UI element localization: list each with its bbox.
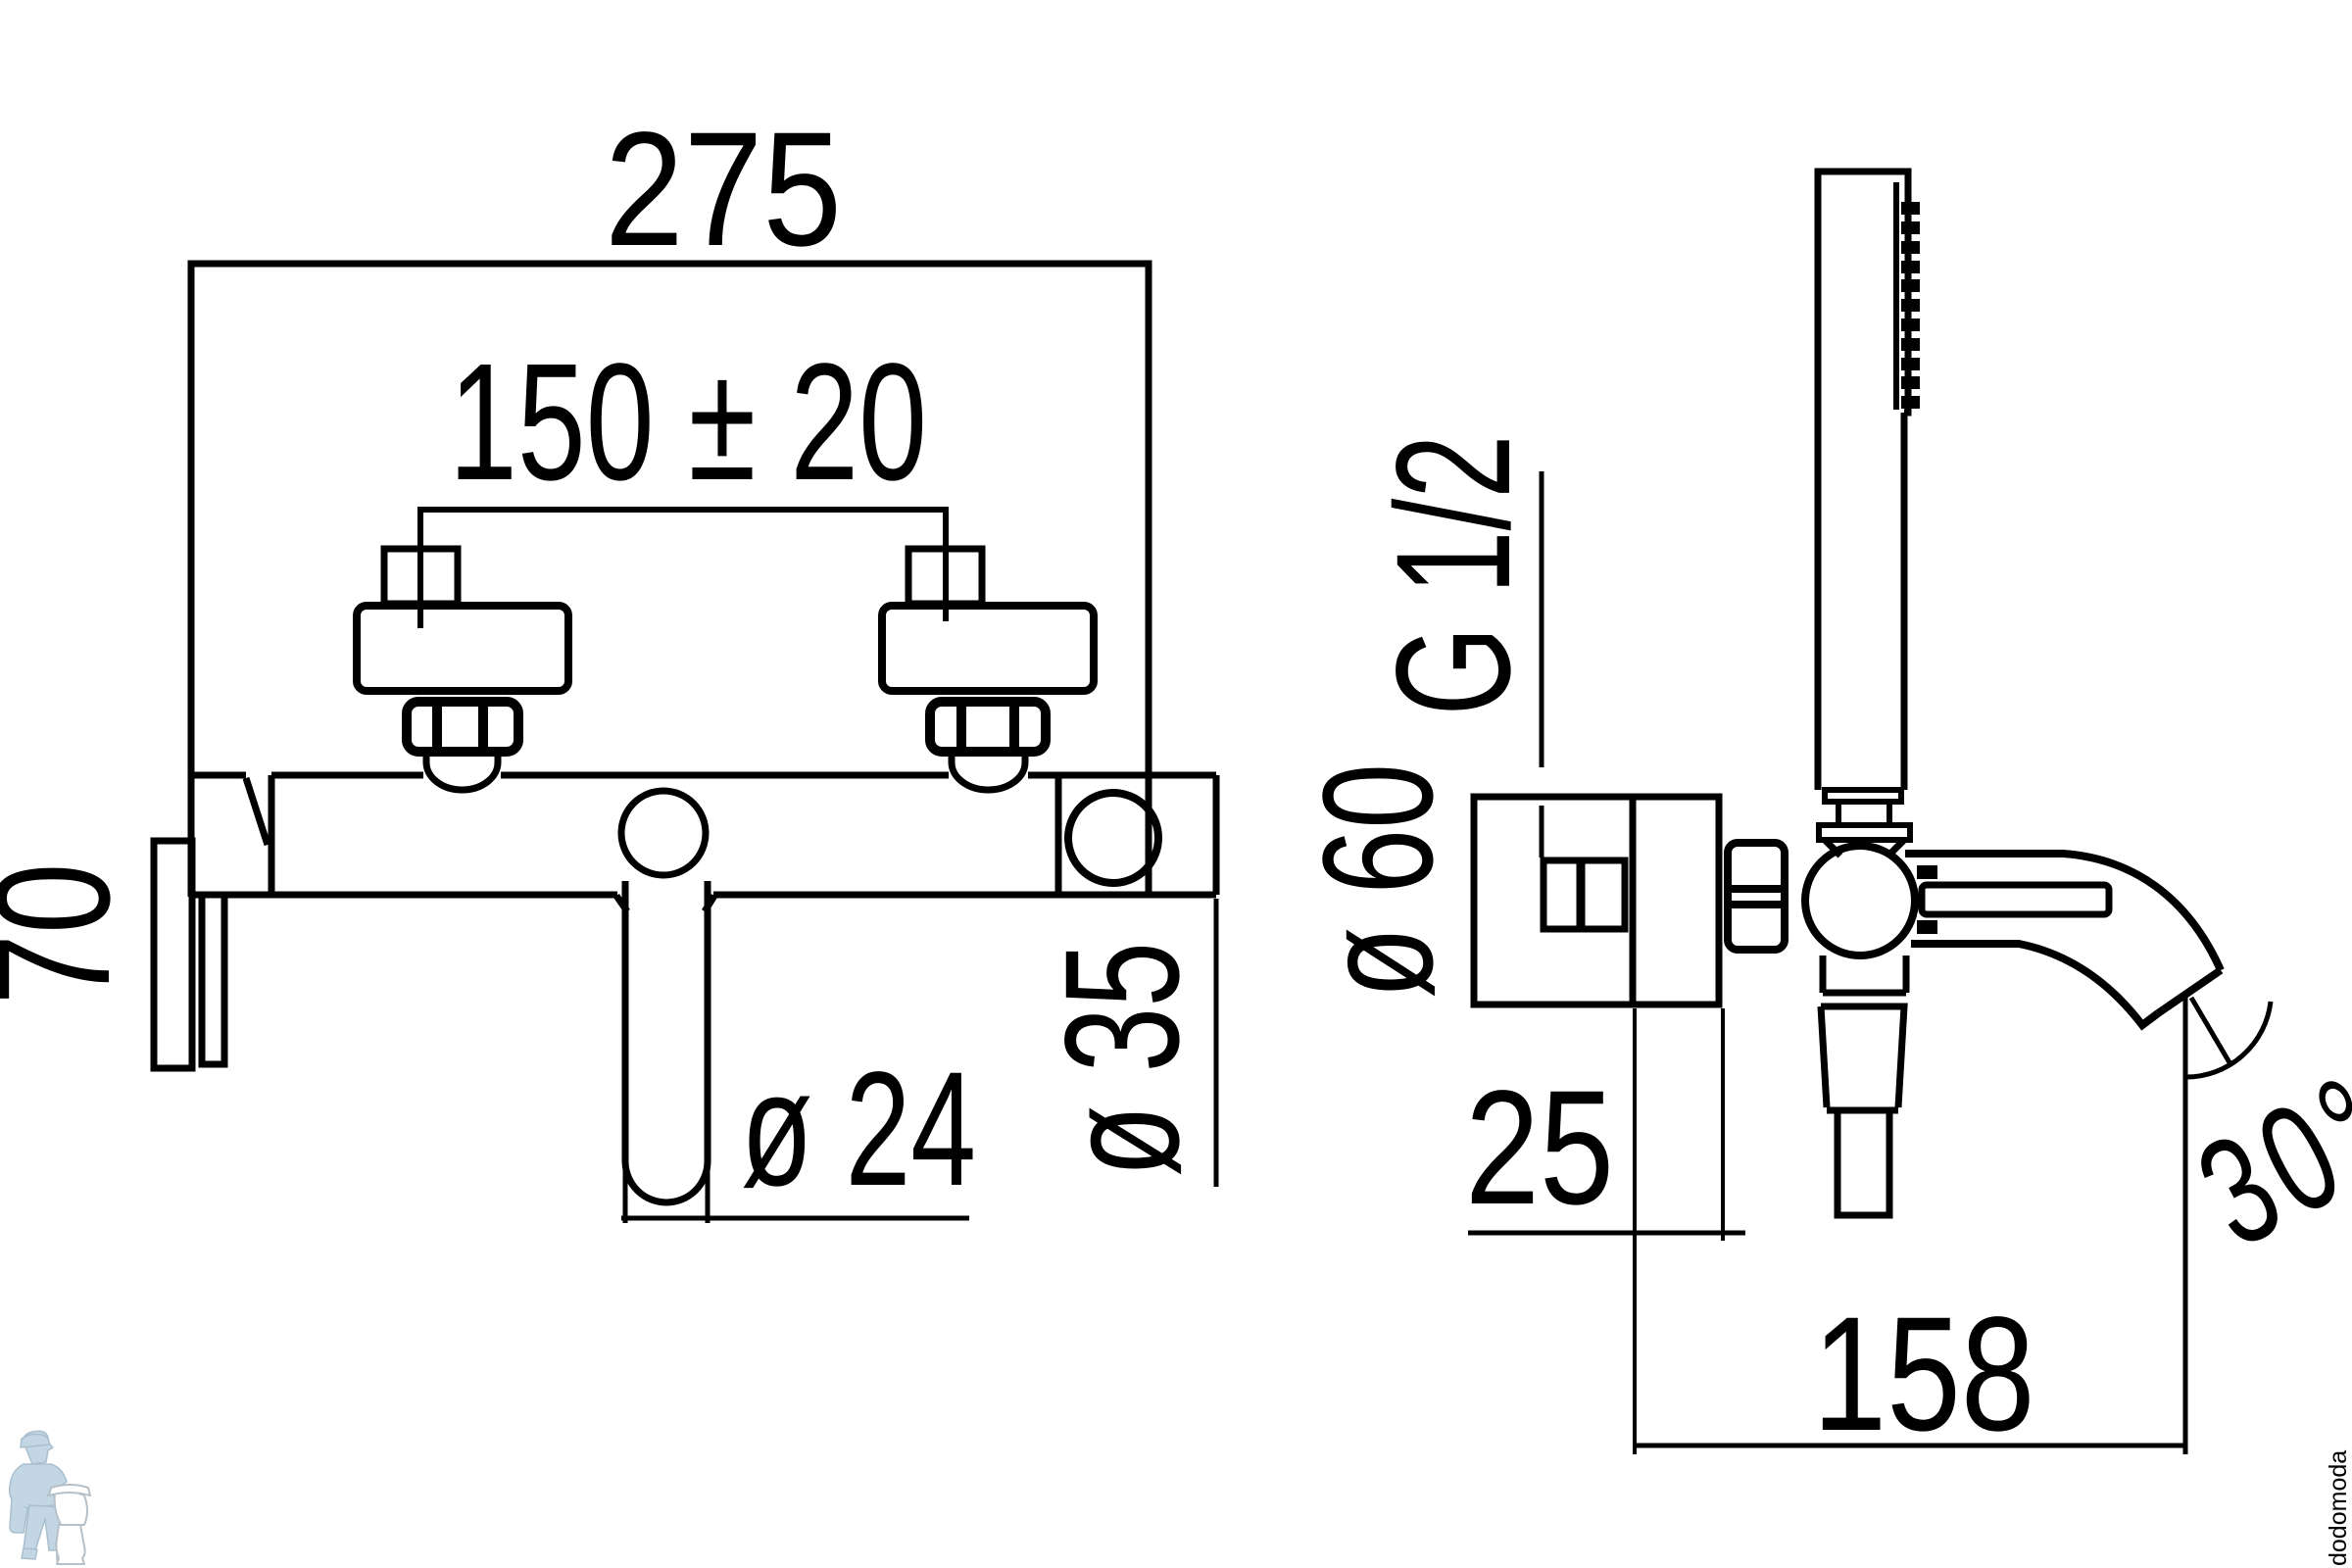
handle collar bbox=[1825, 790, 1901, 802]
lever notch wedge bbox=[246, 775, 271, 895]
G 1/2 leader line bbox=[1540, 471, 1544, 857]
right union nut bbox=[930, 702, 1046, 752]
svg-text:ø 60: ø 60 bbox=[1290, 763, 1465, 999]
wand nut bar bbox=[1819, 825, 1910, 840]
158 dimension line bbox=[1635, 1444, 2186, 1448]
right union dome cap bbox=[952, 753, 1025, 790]
ball joint bbox=[1805, 846, 1915, 955]
right union body bbox=[882, 606, 1094, 691]
spout thread teeth bbox=[1917, 865, 1937, 934]
outlet tube bbox=[1837, 1110, 1889, 1215]
wedges to ball bbox=[1825, 840, 1904, 856]
lever handle inner bar bbox=[202, 895, 224, 1064]
30° flow direction line bbox=[2191, 998, 2230, 1064]
central knob circle bbox=[621, 791, 706, 875]
check valve circle (ø35) bbox=[1068, 793, 1158, 883]
svg-text:dodomoda: dodomoda bbox=[2325, 1450, 2352, 1566]
check valve housing divider bbox=[1055, 778, 1062, 895]
svg-text:158: 158 bbox=[1813, 1284, 2035, 1465]
watermark plumber logo bbox=[10, 1431, 90, 1564]
ø35 extension line bbox=[1214, 899, 1219, 1187]
down spout tube bbox=[616, 881, 714, 1202]
G1/2 socket bbox=[1543, 860, 1625, 929]
svg-text:25: 25 bbox=[1465, 1057, 1614, 1239]
diverter cone bbox=[1821, 1006, 1904, 1110]
diverter neck bbox=[1823, 955, 1906, 993]
dimension line 150±20 with end drops bbox=[420, 510, 946, 628]
spout top edge bbox=[1905, 854, 2221, 970]
wall plate rectangle (275 wide) bbox=[191, 264, 1149, 897]
G1/2 socket divider bbox=[1577, 860, 1586, 929]
side connection nut bbox=[1728, 843, 1785, 950]
svg-text:G 1/2: G 1/2 bbox=[1363, 435, 1544, 716]
ø24 extension lines bbox=[625, 1161, 708, 1223]
svg-text:275: 275 bbox=[605, 99, 842, 280]
spout mouth face bbox=[2158, 970, 2221, 1013]
30° angle arc bbox=[2185, 1002, 2271, 1077]
mixer body bar bottom edge (gap at spout neck) bbox=[191, 892, 1216, 899]
hand shower head bbox=[1818, 171, 1908, 426]
spout bottom edge bbox=[1911, 944, 2158, 1025]
spray face inner line bbox=[1893, 182, 1899, 410]
svg-text:ø 24: ø 24 bbox=[741, 1039, 976, 1220]
158 right extension / 30° reference line bbox=[2183, 992, 2188, 1454]
svg-text:ø 35: ø 35 bbox=[1032, 942, 1213, 1177]
right union small square (wall connection) bbox=[908, 549, 982, 604]
left union dome cap bbox=[426, 753, 498, 790]
mixer body right end cap bbox=[1213, 775, 1220, 895]
25 dimension line bbox=[1468, 1231, 1745, 1236]
mixer body bar top edge (with gaps at notch and domes) bbox=[191, 772, 1216, 779]
lever handle plate bbox=[154, 841, 192, 1068]
svg-text:70: 70 bbox=[0, 863, 144, 1005]
svg-text:150 ± 20: 150 ± 20 bbox=[449, 329, 927, 515]
spout slot bbox=[1922, 885, 2109, 914]
wall flange plate (ø60) bbox=[1474, 797, 1633, 1004]
side body block bbox=[1633, 797, 1719, 1004]
25 dimension extension lines bbox=[1635, 1008, 1723, 1454]
hand shower handle bbox=[1818, 413, 1904, 790]
left union nut bbox=[407, 702, 518, 752]
spray face teeth bbox=[1901, 202, 1920, 409]
left union small square (wall connection) bbox=[384, 549, 458, 604]
left union body bbox=[357, 606, 568, 691]
handle stem bbox=[1838, 802, 1889, 825]
ø24 dimension line bbox=[621, 1216, 969, 1221]
